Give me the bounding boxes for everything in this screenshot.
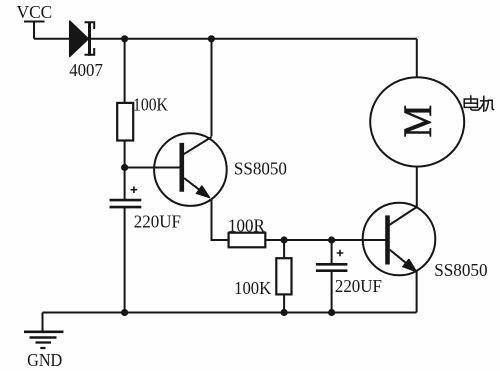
wire motor bottom to Q2 collector — [416, 166, 418, 207]
wire ground stub — [42, 313, 44, 332]
node bottom1 — [121, 309, 128, 316]
transistor Q2 — [363, 203, 436, 276]
svg-text:100R: 100R — [228, 215, 265, 235]
diode D1 — [70, 21, 95, 57]
svg-text:GND: GND — [27, 350, 62, 370]
node C — [281, 236, 288, 243]
node bottom3 — [328, 309, 335, 316]
svg-text:SS8050: SS8050 — [234, 159, 287, 179]
svg-text:M: M — [396, 105, 441, 138]
svg-text:220UF: 220UF — [134, 211, 181, 231]
node B — [121, 164, 128, 171]
wire node B to Q1 base — [125, 167, 180, 169]
wire Q2 emitter down — [416, 271, 418, 313]
transistor Q1 — [154, 133, 227, 206]
svg-text:SS8050: SS8050 — [434, 260, 487, 280]
wire node C drop to R3 — [283, 240, 285, 258]
resistor R2 — [229, 233, 266, 248]
node D — [328, 236, 335, 243]
motor U1 — [370, 77, 464, 166]
wire bottom rail — [43, 312, 417, 314]
wire R3 to bottom rail — [283, 294, 285, 313]
wire 100R to Q2 base — [265, 239, 386, 241]
capacitor C2 — [316, 250, 348, 271]
node A — [121, 35, 128, 42]
resistor R3 — [276, 258, 291, 294]
svg-text:4007: 4007 — [69, 60, 103, 80]
glyph 机 — [481, 100, 487, 102]
svg-text:220UF: 220UF — [335, 276, 382, 296]
wire below C2 to bottom rail — [331, 271, 333, 313]
wire R1 to node B — [124, 140, 126, 199]
capacitor C1 — [110, 186, 142, 207]
node bottom2 — [281, 309, 288, 316]
ground — [24, 332, 64, 348]
wire top rail — [34, 38, 417, 40]
resistor R1 — [117, 103, 133, 141]
wire node D drop to C2 — [331, 240, 333, 263]
wire Q1 emitter down — [212, 199, 229, 240]
wire Q1 collector up — [211, 39, 213, 137]
glyph 电 — [470, 96, 472, 103]
label motor CJK 电机 — [464, 96, 493, 111]
svg-text:100K: 100K — [133, 94, 168, 114]
svg-text:100K: 100K — [234, 278, 271, 298]
node top2 — [208, 35, 215, 42]
wire motor top drop — [416, 39, 418, 78]
wire junction A drop to R1 — [124, 39, 126, 103]
wire below C1 to bottom rail — [124, 207, 126, 312]
svg-text:VCC: VCC — [17, 2, 53, 22]
node VCC terminal — [24, 22, 45, 39]
